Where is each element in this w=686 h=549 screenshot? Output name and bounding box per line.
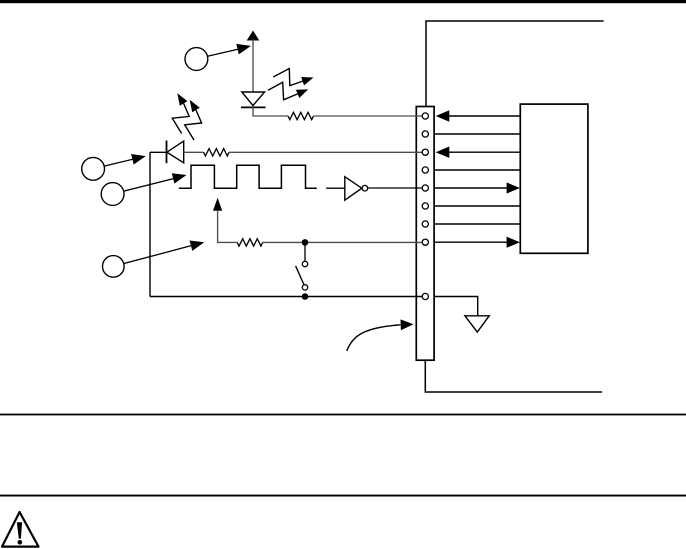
wire: supply down to LED D1 [252,40,254,93]
connector pin 7 [422,221,428,227]
wire: R2 to connector pin3 [229,151,422,153]
connector pin 5 [422,185,428,191]
wire: left rail to diode D2 [150,151,167,153]
switch S1: upper contact [302,261,307,266]
callout circle A [82,157,105,180]
callout arrow B [124,178,175,191]
inverter U2 [345,177,362,201]
separator rule 1 [0,414,686,416]
wire row pin7 to U1 [434,223,520,225]
wire row pin5 to U1 [434,187,509,189]
callout circle 1 [185,48,208,71]
header rule (top black bar) [0,0,686,3]
junction dot (switch / ground wire) [302,293,309,300]
cathode bar of D1 [241,106,266,108]
wire: R1 to connector pin1 [314,115,423,117]
left rail wire (D2 down to common wire) [149,152,151,296]
switch S1: blade [296,266,304,285]
arrowhead into pin3 (left) [436,147,450,158]
wire: dash into inverter input [326,187,345,189]
wire: connector bottom tail to page right [425,360,602,392]
callout circle B [101,183,124,206]
connector pin 2 [422,131,428,137]
separator rule 2 [0,495,686,497]
common bottom wire to connector pin9 [150,296,422,298]
wire row pin6 to U1 [434,205,520,207]
arrowhead into U1 (row5, right) [507,182,520,193]
wire: D2 to resistor R2 [184,151,204,153]
wire row pin2 to U1 [434,133,520,135]
resistor R3 [237,239,262,246]
inverter bubble [362,185,368,191]
arrowhead into U1 (row8, right) [507,237,520,248]
switch S1: lower contact [302,285,307,290]
connector J1 (vertical header strip) [416,107,434,361]
warning triangle [2,512,39,547]
warning exclamation bar [17,522,22,538]
cathode bar of D2 [166,141,168,164]
junction dot (R3 / switch) [302,239,309,246]
diode D2 (opto diode, pointing left) [167,141,184,163]
arrowhead into pin1 (left) [436,110,450,121]
connector pin 1 [422,113,428,119]
wire: P2 down and right to resistor R3 [218,210,238,242]
resistor R1 [288,112,313,119]
connector pin 6 [422,203,428,209]
curved callout arrow (points at connector) [347,325,401,351]
LED D1 (emitter diode, pointing down) [242,92,265,106]
wire row pin1 to U1 [449,115,521,117]
wire: pin9 to ground [434,297,478,316]
wire: D1 cathode to resistor R1 [253,107,288,116]
switch S1: top lead [304,242,306,261]
power arrow P1 (supply, up) [247,31,260,41]
square wave signal [179,165,317,188]
light emission arrow a2 of D1 [268,82,298,100]
connector pin 9 (common) [422,293,428,299]
callout arrow C [124,245,192,263]
connector pin 3 [422,149,428,155]
power arrow P2 (pull-up supply, up) [213,198,222,211]
light arrow b1 of D2 [172,103,189,133]
callout arrow 1 [208,49,240,56]
ground symbol [465,316,489,332]
resistor R2 [204,149,229,156]
callout circle C [103,256,125,278]
callout arrow A [104,159,134,166]
wire: top supply run from connector to page right [426,21,604,107]
wire: inverter output to connector pin5 [368,187,422,189]
wire: R3 to connector pin8 [263,241,423,243]
wire row pin3 to U1 [449,151,521,153]
light emission arrow a1 of D1 [273,69,303,86]
connector pin 8 [422,239,428,245]
wire row pin4 to U1 [434,169,520,171]
warning exclamation dot [18,540,23,545]
wire row pin8 to U1 [434,241,509,243]
light arrow b2 of D2 [185,110,202,140]
connector pin 4 [422,167,428,173]
IC U1 (control box) [520,104,588,253]
